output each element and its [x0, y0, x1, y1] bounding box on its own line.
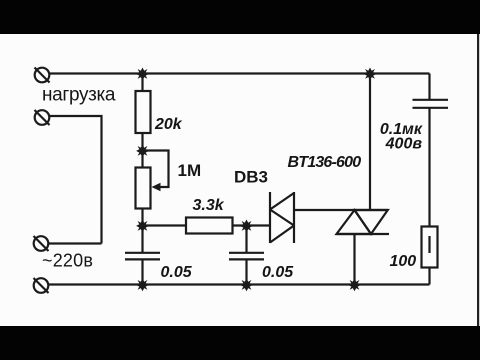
junction dot at top bus / R1 — [136, 68, 149, 81]
junction node A dot — [136, 145, 149, 158]
wire: node A down to R2 — [141, 151, 143, 168]
wire: R4 bottom to bottom bus — [428, 268, 430, 285]
terminal X1 (load, top-left) — [35, 68, 50, 83]
wire: top-right corner down to C3 — [428, 74, 430, 100]
wire: triac bottom to bottom bus — [353, 234, 355, 285]
svg-text:BT136-600: BT136-600 — [288, 154, 362, 171]
capacitor C1 0.05 plates — [125, 253, 160, 260]
wire: top bus down to R1 — [141, 74, 143, 92]
wire: R2 bottom to node B — [141, 209, 143, 226]
wire: node B right to R3 — [143, 224, 187, 226]
wire: C3 bottom to R4 — [428, 108, 430, 227]
wire: bottom horizontal bus — [48, 283, 429, 285]
wire: C2 bottom to bottom bus — [245, 259, 247, 284]
resistor R4 100 body — [422, 227, 438, 268]
resistor R3 3.3k body — [186, 218, 233, 234]
junction dot bottom bus / C2 — [240, 279, 253, 292]
resistor R1 20k body — [136, 91, 151, 133]
wire: X3 to left vertical — [48, 242, 101, 244]
svg-text:0.05: 0.05 — [161, 264, 193, 281]
svg-text:100: 100 — [390, 253, 417, 270]
potentiometer R2 1M body — [136, 168, 151, 209]
wire: node C down to capacitor C2 — [245, 226, 247, 253]
terminal X3 (~220v upper) — [34, 236, 49, 251]
triac VS1 BT136-600 — [337, 210, 390, 234]
svg-text:~220в: ~220в — [42, 251, 93, 271]
junction dot at top bus / triac branch — [364, 68, 377, 81]
capacitor C3 0.1uF 400V plates — [413, 100, 449, 108]
wire: C1 bottom to bottom bus — [141, 259, 143, 284]
svg-text:400в: 400в — [385, 136, 423, 153]
svg-text:0.05: 0.05 — [262, 264, 294, 281]
junction node B dot — [136, 220, 149, 233]
junction dot bottom bus / triac — [348, 279, 361, 292]
svg-text:DB3: DB3 — [234, 168, 268, 187]
wire: diac to triac gate rail — [294, 209, 388, 211]
wire: X2 right then down to X3 — [49, 116, 101, 244]
wire: node A to potentiometer wiper — [143, 151, 169, 188]
terminal X4 (~220v lower) — [34, 278, 49, 293]
capacitor C2 0.05 plates — [229, 253, 264, 260]
svg-text:нагрузка: нагрузка — [42, 85, 116, 106]
terminal X2 (load, second) — [35, 110, 50, 125]
svg-text:3.3k: 3.3k — [193, 197, 225, 214]
wire: top bus down to triac — [369, 74, 371, 211]
svg-text:20k: 20k — [154, 116, 183, 133]
wire: R1 bottom to node A — [141, 133, 143, 151]
wire: R3 right to node C and diac — [233, 224, 271, 226]
junction dot bottom bus / C1 — [136, 279, 149, 292]
potentiometer R2 wiper arrowhead — [152, 183, 161, 192]
diac VD1 DB3 — [270, 192, 294, 243]
resistor R4 inner mark — [428, 236, 430, 253]
wire: node B down to capacitor C1 — [141, 226, 143, 253]
junction node C dot — [240, 220, 253, 233]
svg-text:1M: 1M — [178, 161, 202, 180]
wire: top horizontal bus — [49, 72, 429, 74]
